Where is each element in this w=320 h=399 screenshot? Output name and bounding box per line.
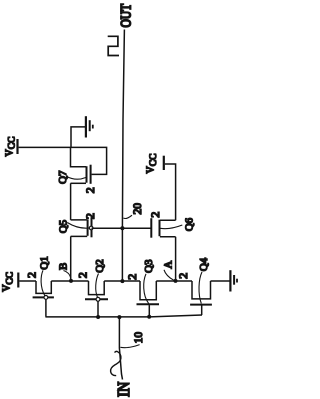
- wire: Q5 source to node B: [70, 236, 72, 281]
- svg-text:IN: IN: [115, 382, 133, 397]
- node B junction: [69, 279, 73, 283]
- wire: output line (OUT terminal down to row wire): [122, 30, 124, 282]
- leader line for 10: [120, 345, 139, 348]
- ground (top left) bars: [85, 116, 87, 137]
- Vcc supply bar (right): [163, 156, 165, 170]
- wire: Q3 to Q4 (node A): [156, 280, 192, 282]
- svg-text:2: 2: [83, 213, 97, 219]
- node A junction: [174, 279, 178, 283]
- Q5 leader line: [67, 223, 89, 229]
- svg-text:A: A: [163, 261, 175, 269]
- Vcc supply bar (bottom left): [17, 273, 19, 288]
- wire: Vcc to Q6 drain: [165, 164, 176, 220]
- svg-text:Q5: Q5: [58, 219, 70, 233]
- ground (top left) lead: [71, 127, 85, 147]
- wire: gate line Q5 to Q6 (node 20): [92, 227, 152, 229]
- svg-text:VCC: VCC: [4, 137, 17, 157]
- junction: Q3 gate on bus: [147, 315, 151, 319]
- junction: input line on bus: [117, 315, 121, 319]
- svg-text:OUT: OUT: [117, 4, 134, 28]
- transistor Q1: [33, 281, 54, 317]
- svg-text:2: 2: [148, 212, 162, 218]
- svg-text:2: 2: [176, 273, 190, 279]
- squiggle on input line: [111, 351, 121, 375]
- transistor Q6: [151, 218, 175, 238]
- svg-text:2: 2: [125, 274, 139, 280]
- ground (right) bars: [229, 270, 231, 291]
- transistor Q3: [137, 281, 160, 317]
- svg-text:Q4: Q4: [198, 257, 210, 271]
- svg-text:2: 2: [76, 272, 90, 278]
- Q4 leader line: [199, 272, 202, 303]
- wire: Q7 source to Q5 drain: [70, 183, 72, 220]
- junction: Q2 gate on bus: [96, 315, 100, 319]
- svg-text:Q3: Q3: [143, 259, 155, 273]
- leader line for 20: [123, 215, 132, 218]
- Q3 leader line: [144, 274, 149, 304]
- wire: Q1 to Q2 (node B): [51, 280, 88, 282]
- svg-text:Q1: Q1: [39, 256, 51, 269]
- transistor Q7: [71, 147, 91, 183]
- Q1 leader line: [41, 270, 45, 296]
- svg-text:2: 2: [83, 187, 97, 193]
- output waveform pulse symbol: [108, 36, 119, 55]
- svg-text:20: 20: [132, 203, 144, 215]
- transistor Q5: [71, 217, 92, 237]
- svg-text:VCC: VCC: [1, 272, 15, 292]
- svg-text:B: B: [57, 263, 69, 270]
- svg-text:2: 2: [25, 272, 39, 278]
- Q2 leader line: [96, 274, 99, 298]
- wire: Q6 source to node A: [175, 237, 177, 281]
- Q6 leader line: [160, 225, 182, 229]
- wire: Q4 source to ground: [211, 280, 230, 282]
- gate bus wire: [45, 315, 202, 317]
- Vcc supply bar (top left): [16, 139, 18, 154]
- junction: output line to row wire: [120, 279, 124, 283]
- svg-text:10: 10: [133, 332, 145, 344]
- leader line for B: [64, 271, 71, 279]
- wire: Vcc rail to Q7 gate: [19, 147, 107, 174]
- transistor Q4: [190, 281, 212, 315]
- node 20 junction: [120, 226, 124, 230]
- leader line for A: [164, 270, 174, 280]
- transistor Q2: [85, 281, 108, 317]
- svg-text:Q2: Q2: [94, 259, 106, 272]
- Q7 leader line: [66, 176, 86, 179]
- wire: Vcc to Q1 drain: [19, 280, 36, 282]
- input line: [119, 317, 122, 380]
- svg-text:VCC: VCC: [146, 154, 160, 174]
- svg-text:Q6: Q6: [184, 217, 196, 231]
- wire: Q2 to Q3: [104, 280, 140, 282]
